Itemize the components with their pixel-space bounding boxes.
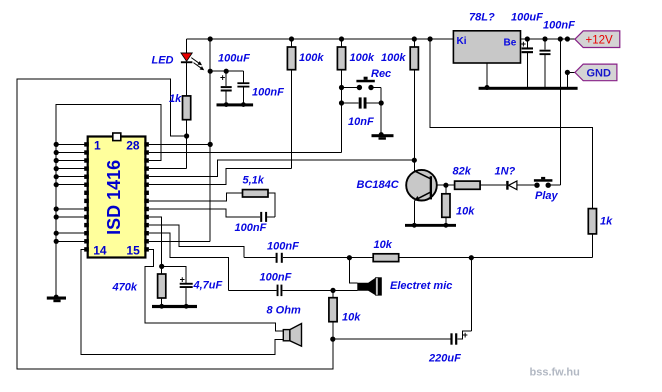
LED arrows: [191, 58, 199, 64]
wire pin 19 AGC: [149, 217, 162, 266]
svg-text:LED: LED: [152, 55, 174, 67]
node mic top: [347, 255, 352, 260]
ground bar 470k/4.7uF: [152, 305, 197, 308]
diode D 1N?: [506, 181, 508, 190]
wire pin 15 SP- to speaker top: [145, 249, 283, 331]
svg-text:Be: Be: [504, 37, 517, 48]
svg-text:82k: 82k: [453, 166, 472, 178]
svg-text:+12V: +12V: [586, 35, 614, 47]
svg-text:220uF: 220uF: [428, 353, 461, 365]
capacitor C 100uF (right): [526, 39, 528, 47]
svg-text:5,1k: 5,1k: [243, 175, 265, 187]
node collector: [412, 158, 417, 163]
resistor R 100k (third, collector pullup): [413, 39, 415, 47]
wire pin 24 PLAYE staircase to collector: [149, 160, 414, 177]
wire left pin 4: [56, 168, 84, 170]
wire left pin 13: [56, 240, 84, 242]
wire outer frame loop (LED node to bottom rail): [17, 79, 333, 369]
node dots on left bus: [54, 142, 59, 244]
resistor R 470k: [161, 266, 163, 274]
capacitor C 4,7uF: [180, 283, 193, 285]
wire AGC node to 4,7uF: [162, 266, 187, 282]
svg-text:10k: 10k: [456, 206, 475, 218]
svg-text:1k: 1k: [600, 216, 613, 228]
svg-text:78L?: 78L?: [469, 12, 495, 24]
node dots on +12 rail: [289, 36, 294, 41]
wire caps branch: [210, 70, 243, 72]
ground bus right: [479, 87, 578, 90]
svg-text:Ki: Ki: [457, 36, 467, 47]
svg-text:14: 14: [93, 243, 107, 257]
wire 1k to pin 25: [149, 120, 187, 169]
IC U1 ISD1416 body: [88, 137, 146, 258]
wire left pin 12: [56, 232, 84, 234]
transistor Q1 BC184C: [406, 170, 437, 201]
ground left bus symbol: [47, 297, 66, 300]
capacitor C 100nF (left): [242, 71, 244, 82]
wire LED branch riser: [186, 39, 188, 53]
capacitor C 100nF (speaker/mic line): [228, 289, 276, 291]
IC pins left column: [84, 142, 89, 251]
capacitor C 220uF: [333, 338, 451, 340]
capacitor C 100nF (right): [544, 39, 546, 50]
svg-text:100uF: 100uF: [218, 53, 250, 65]
pushbutton Rec: [342, 87, 358, 89]
wire 82k to diode: [480, 184, 506, 186]
svg-text:ISD 1416: ISD 1416: [104, 160, 124, 235]
wire left pin 1: [56, 143, 84, 145]
wire left pin 5: [56, 176, 84, 178]
svg-text:15: 15: [126, 243, 140, 257]
resistor R 10k (base): [445, 185, 447, 194]
wire pin 27 REC row: [149, 152, 342, 154]
wire regulator output rail to +12V tag: [521, 38, 575, 40]
resistor R 10k (mic bias lower): [332, 290, 334, 297]
svg-text:100uF: 100uF: [511, 12, 543, 24]
LED D1: [181, 53, 192, 61]
svg-text:100nF: 100nF: [252, 87, 284, 99]
svg-text:+: +: [220, 73, 225, 83]
regulator U2 78L?: [453, 31, 520, 63]
wire pin 21 ANA OUT to 5,1k: [149, 193, 243, 201]
resistor R 100k (first, EOM pullup): [291, 39, 293, 47]
ground bar under caps: [217, 103, 254, 106]
wire top +12V rail: [187, 38, 454, 40]
wire base: [437, 184, 455, 186]
wire 220uF node riser: [470, 258, 472, 332]
wire pin 23 EOM staircase: [149, 169, 292, 185]
IC pins right column: [144, 142, 149, 251]
svg-text:100nF: 100nF: [260, 272, 292, 284]
wire left pin 10: [56, 216, 84, 218]
svg-text:1k: 1k: [169, 93, 182, 105]
node dots spine: [208, 36, 213, 41]
ground 10nF: [372, 134, 394, 137]
svg-text:BC184C: BC184C: [357, 179, 400, 191]
capacitor C 10nF: [342, 102, 359, 104]
svg-text:470k: 470k: [112, 282, 138, 294]
svg-text:10nF: 10nF: [348, 116, 374, 128]
wire left pin 3: [56, 160, 84, 162]
node LED/frame junction: [184, 133, 189, 138]
wire pin 17 MIC staircase: [149, 233, 228, 290]
svg-text:100k: 100k: [381, 52, 406, 64]
resistor R 10k (horizontal mic feed): [349, 257, 373, 259]
wire LED to resistor 1k: [186, 63, 188, 96]
svg-text:100nF: 100nF: [543, 20, 575, 32]
pushbutton Play: [534, 183, 539, 188]
svg-text:100nF: 100nF: [235, 222, 267, 234]
svg-text:8 Ohm: 8 Ohm: [267, 305, 301, 317]
wire pin 20 ANA IN jog: [149, 209, 260, 217]
resistor R 1k (right): [588, 209, 596, 234]
svg-text:100nF: 100nF: [267, 241, 299, 253]
wire left pin 2: [56, 152, 84, 154]
wire left pin 14 (SP+) to speaker bottom: [81, 249, 283, 354]
svg-text:Electret mic: Electret mic: [390, 280, 452, 292]
ground transistor/10k: [405, 224, 456, 227]
resistor R 100k (second, REC pullup): [341, 39, 343, 47]
wire pin 28: [149, 143, 210, 145]
wire +12 spine x210 (pin 28 / VCCA): [149, 39, 210, 241]
wire regulator ground: [486, 63, 488, 87]
node dots regulator rail: [525, 36, 530, 41]
svg-text:GND: GND: [587, 68, 612, 80]
capacitor C 100nF (feedback): [260, 212, 262, 222]
resistor R 5,1k: [243, 190, 269, 197]
speaker SP: [283, 330, 290, 341]
svg-text:+: +: [521, 39, 526, 49]
svg-text:+: +: [463, 330, 468, 340]
wire left pin 6: [56, 184, 84, 186]
tag GND: [575, 64, 617, 81]
svg-text:4,7uF: 4,7uF: [193, 280, 223, 292]
wire GND tag: [567, 72, 575, 86]
svg-text:100k: 100k: [350, 52, 375, 64]
wire +12 to 1k pullup (play line): [430, 39, 592, 209]
microphone electret: [349, 258, 357, 283]
svg-text:bss.fw.hu: bss.fw.hu: [530, 367, 580, 379]
svg-text:1N?: 1N?: [495, 166, 516, 178]
svg-text:+: +: [180, 274, 185, 284]
node 220uF junction: [330, 337, 335, 342]
IC notch: [113, 133, 121, 141]
wire inner ground frame (left bus to pin 26): [56, 105, 161, 297]
svg-text:Rec: Rec: [371, 68, 391, 80]
wire 5,1k right to cap: [268, 193, 275, 217]
resistor R 1k (LED): [183, 96, 191, 120]
resistor R 82k: [455, 181, 481, 189]
svg-text:10k: 10k: [342, 312, 361, 324]
svg-text:100k: 100k: [299, 52, 324, 64]
capacitor C 100uF (left): [225, 71, 227, 86]
svg-text:10k: 10k: [374, 239, 393, 251]
wire pin 18 MIC REF staircase: [149, 225, 244, 258]
tag +12V: [575, 31, 620, 48]
svg-text:1: 1: [94, 139, 101, 153]
svg-text:28: 28: [126, 139, 140, 153]
wire left pin 9: [56, 208, 84, 210]
svg-text:Play: Play: [535, 190, 559, 202]
capacitor C 100nF (mic ref): [244, 257, 275, 259]
